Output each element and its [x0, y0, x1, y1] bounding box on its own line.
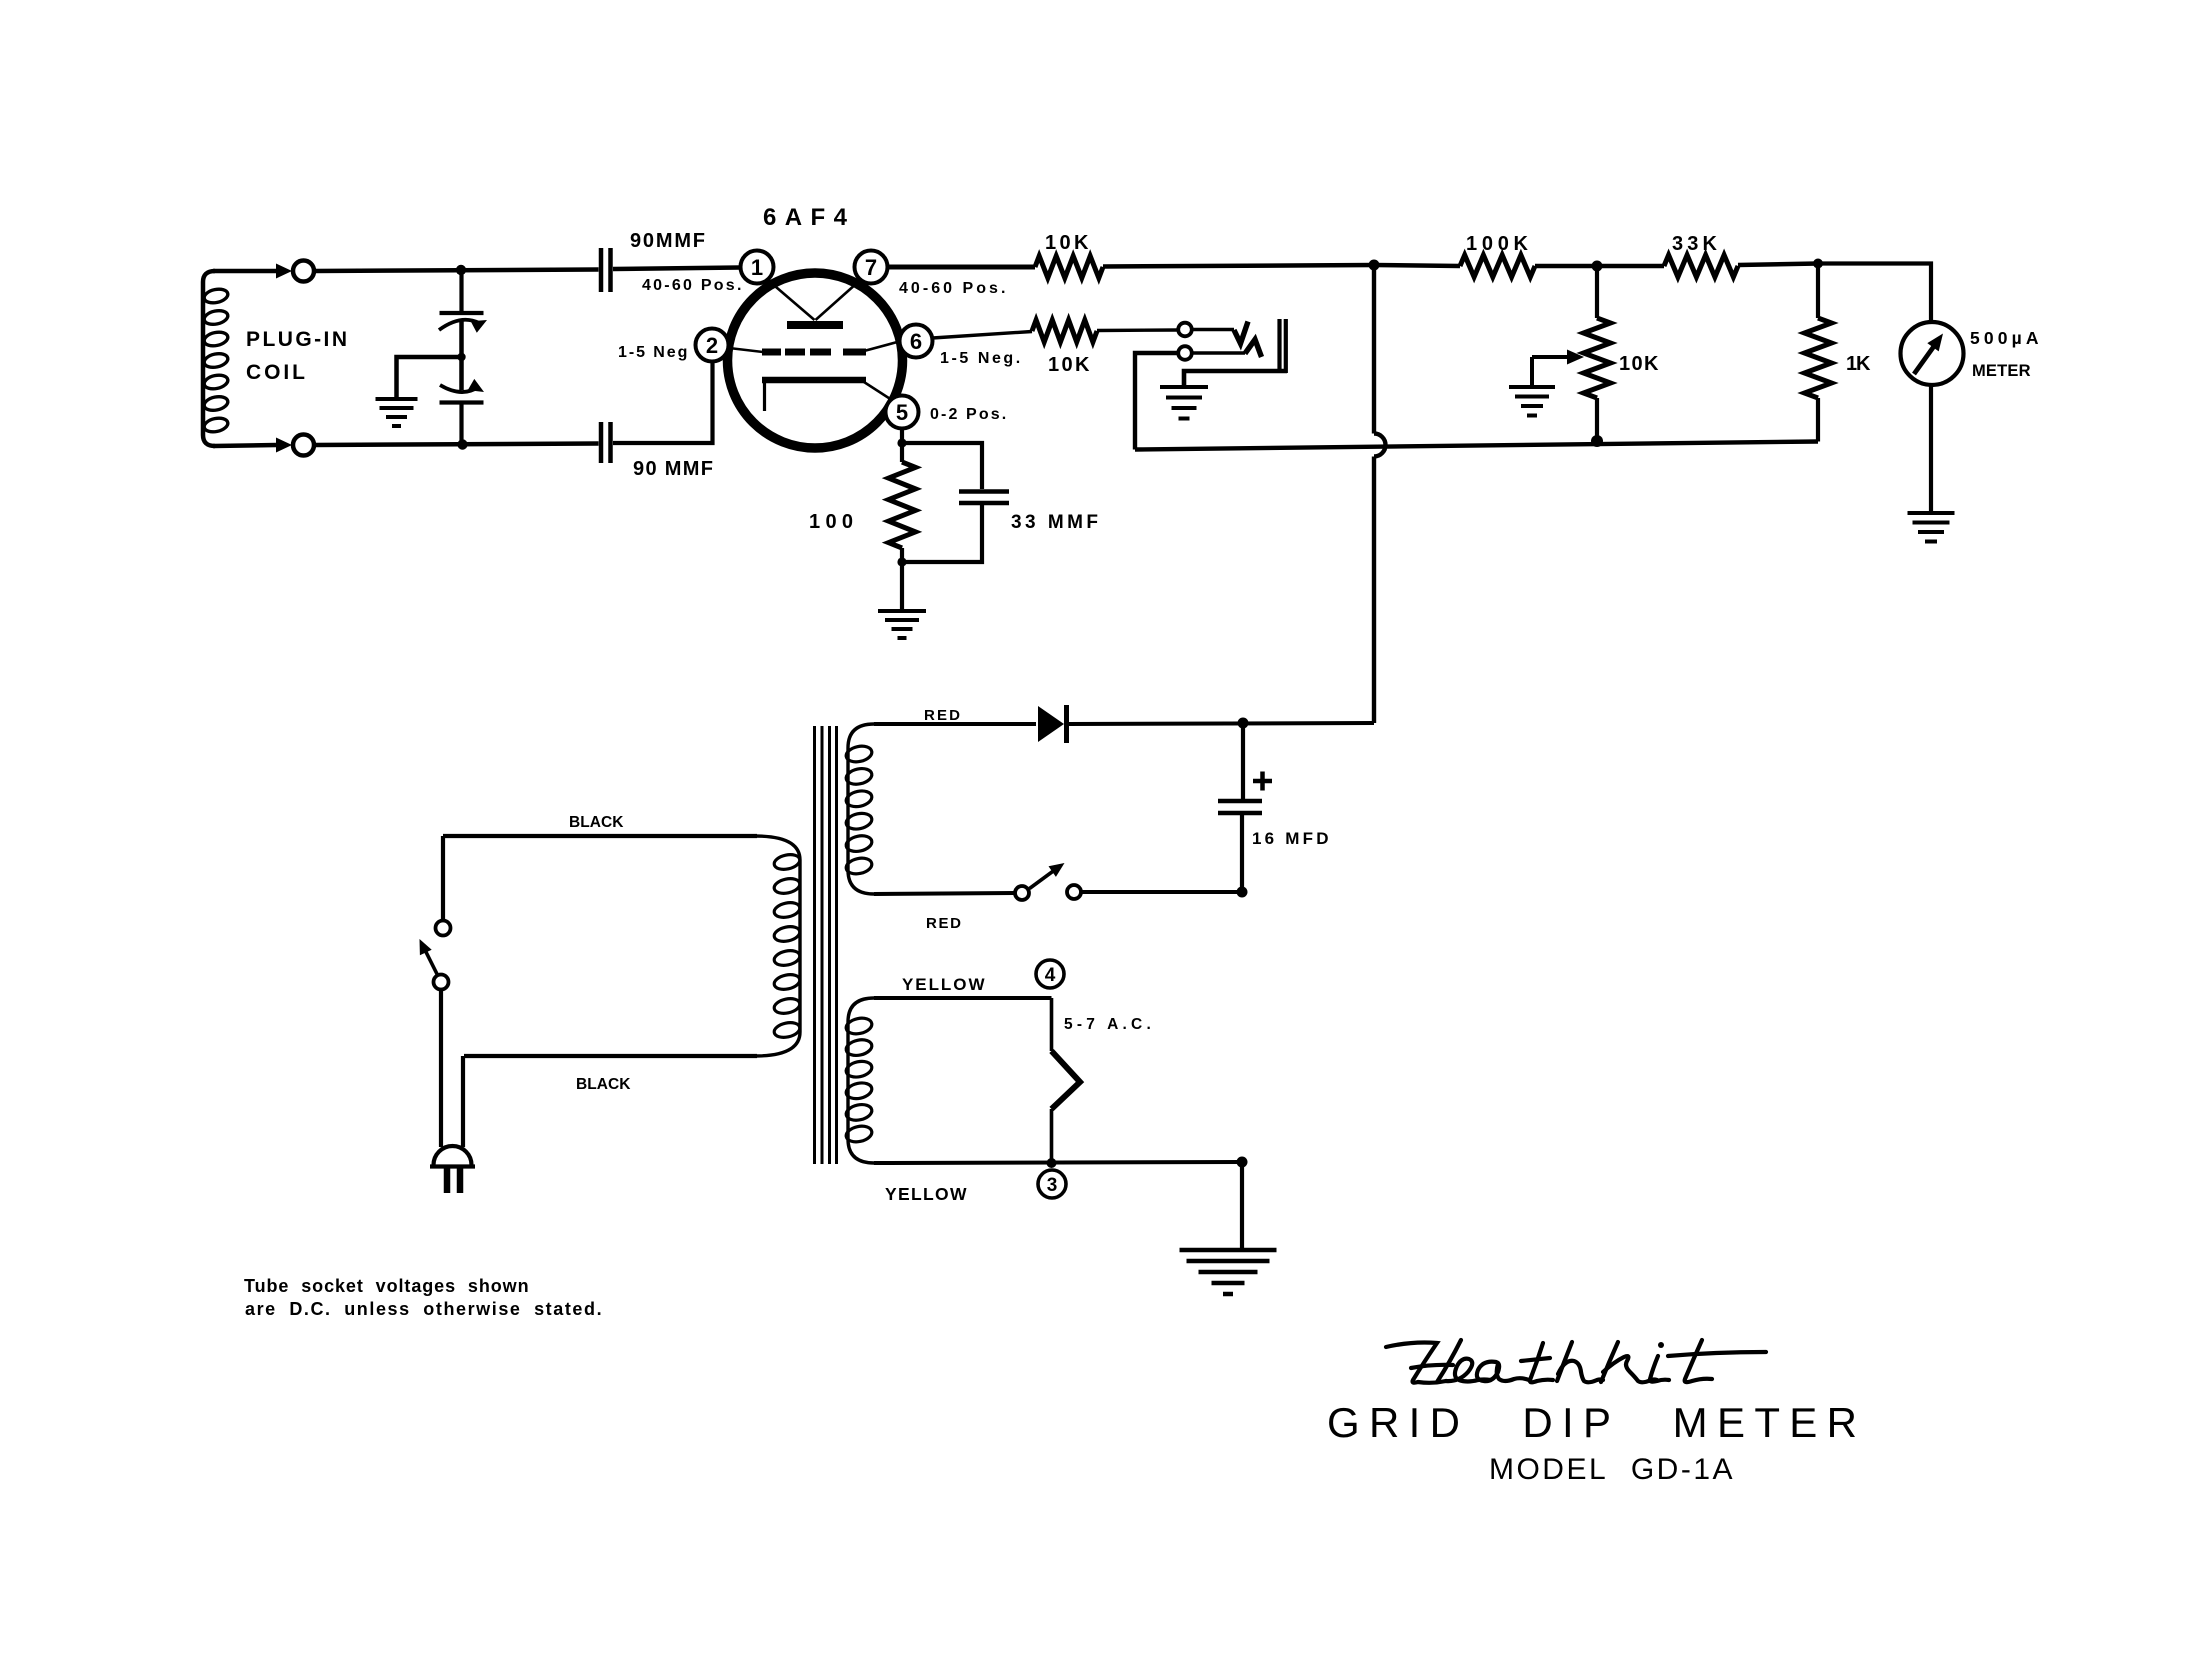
wire black bottom to plug	[461, 1056, 465, 1147]
wire wiper to ground	[1530, 357, 1534, 387]
note line 2	[245, 1299, 602, 1319]
svg-text:6: 6	[910, 329, 922, 354]
label 0-2 Pos.	[930, 406, 1007, 423]
label 10K pot	[1619, 353, 1661, 375]
label RED top	[924, 707, 962, 724]
svg-text:Tube socket voltages shown: Tube socket voltages shown	[244, 1276, 529, 1296]
svg-text:500µA: 500µA	[1970, 328, 2040, 348]
label BLACK top	[569, 814, 626, 831]
switch SW1 contact left	[1015, 886, 1029, 900]
svg-text:MODEL GD-1A: MODEL GD-1A	[1489, 1453, 1740, 1486]
transformer T1 core	[815, 726, 837, 1164]
node bus-pot junction	[1591, 435, 1603, 447]
wire diode to node B	[1069, 723, 1374, 724]
jack tip contact	[1178, 322, 1248, 344]
wire SW1 to C5 node	[1081, 890, 1242, 894]
svg-text:are D.C. unless otherwise stat: are D.C. unless otherwise stated.	[245, 1299, 602, 1319]
wire C1 to pin1	[613, 268, 740, 270]
wire varcap rotor to ground	[397, 357, 462, 399]
tube plate and pin1/7 leads	[762, 275, 866, 325]
svg-text:PLUG-IN: PLUG-IN	[246, 328, 349, 351]
ground (cathode network)	[878, 611, 926, 638]
wire R5 to meter corner	[1738, 264, 1818, 266]
label 1K	[1846, 353, 1873, 375]
svg-text:7: 7	[865, 255, 877, 280]
wire 1K bottom	[1816, 398, 1820, 442]
breaker contact top	[436, 921, 451, 936]
breaker contact bottom	[434, 975, 449, 990]
surge gap 5-7 AC	[1052, 1051, 1081, 1109]
svg-text:1: 1	[751, 255, 763, 280]
label 1-5 Neg. right	[940, 350, 1021, 367]
label 16 MFD	[1252, 829, 1330, 848]
wire pin4 down	[1050, 998, 1054, 1051]
svg-text:YELLOW: YELLOW	[885, 1184, 968, 1204]
svg-text:1-5 Neg.: 1-5 Neg.	[940, 350, 1021, 367]
svg-text:4: 4	[1045, 965, 1056, 986]
node 1K top	[1813, 259, 1823, 269]
pin 6	[900, 325, 933, 358]
note line 1	[244, 1276, 529, 1296]
pin 2	[696, 329, 729, 362]
terminal arrow top	[276, 264, 292, 279]
resistor R5 33K	[1664, 255, 1738, 277]
switch SW1 arm	[1030, 863, 1065, 889]
svg-text:RED: RED	[926, 915, 963, 932]
wire bottom terminal to C2	[314, 444, 599, 446]
ground (variable capacitor)	[376, 399, 418, 426]
ground (jack)	[1160, 387, 1208, 419]
pin 1	[741, 251, 774, 284]
label 100K	[1466, 233, 1530, 255]
wire top terminal to C1	[314, 270, 599, 272]
wire C5 down	[1240, 813, 1244, 892]
svg-text:5: 5	[896, 400, 908, 425]
svg-text:100K: 100K	[1466, 233, 1530, 255]
wire R2 to node A	[1103, 265, 1374, 267]
svg-text:90MMF: 90MMF	[630, 230, 706, 252]
logo Heathkit (script)	[1386, 1340, 1766, 1383]
node B rectifier output	[1238, 718, 1249, 729]
label 500uA	[1970, 328, 2040, 348]
label 10K grid	[1048, 354, 1092, 376]
pin 7	[855, 251, 888, 284]
node main ground junction	[1237, 1157, 1248, 1168]
label 40-60 Pos. left	[642, 277, 742, 294]
wire R4 to R5	[1535, 264, 1664, 269]
node A (B+ to RF section)	[1369, 260, 1380, 271]
svg-text:100: 100	[809, 511, 855, 533]
tube grid (dashed) with leads	[729, 341, 901, 352]
wire node B to C5	[1241, 723, 1245, 799]
resistor R2 10K plate	[1035, 256, 1103, 278]
svg-text:5-7 A.C.: 5-7 A.C.	[1064, 1016, 1152, 1033]
label RED bottom	[926, 915, 963, 932]
label YELLOW top	[902, 975, 986, 994]
wire node A down	[1372, 265, 1376, 434]
svg-text:10K: 10K	[1048, 354, 1092, 376]
breaker arm	[420, 939, 438, 975]
svg-text:COIL: COIL	[246, 361, 309, 384]
svg-text:2: 2	[706, 333, 718, 358]
resistor R4 100K	[1460, 255, 1535, 277]
capacitor C4 33MMF	[959, 492, 1009, 504]
wire cathode cap top	[902, 443, 982, 489]
svg-text:YELLOW: YELLOW	[902, 975, 986, 994]
terminal arrow bottom	[276, 438, 292, 453]
label BLACK bottom	[576, 1076, 633, 1093]
svg-text:10K: 10K	[1619, 353, 1661, 375]
label 10K plate	[1045, 232, 1091, 254]
wire pin7 to R2	[888, 265, 1035, 270]
switch SW1 contact right	[1067, 885, 1081, 899]
wire to main ground	[1240, 1162, 1244, 1250]
wire pot bottom	[1595, 398, 1599, 441]
wire node A to R4	[1374, 265, 1460, 266]
resistor R3 10K grid	[1032, 320, 1097, 342]
capacitor C5 16MFD plus	[1253, 772, 1272, 791]
wire pin6 to R3	[933, 332, 1033, 339]
wire R1 top	[900, 443, 904, 462]
jack ring contact	[1178, 340, 1261, 360]
node cathode top	[897, 438, 906, 447]
wire pin5 down	[900, 428, 904, 443]
label 1-5 Neg left	[618, 344, 688, 361]
capacitor C1 90MMF top	[601, 248, 611, 292]
wire cathode cap bottom	[902, 505, 982, 562]
inductor L1 PLUG-IN COIL	[203, 271, 229, 446]
svg-text:6AF4: 6AF4	[763, 204, 855, 231]
wire hop over bus	[1374, 434, 1386, 457]
wire to meter	[1818, 264, 1931, 322]
resistor R7 1K	[1805, 318, 1832, 398]
wire BLACK top	[443, 834, 757, 838]
svg-text:RED: RED	[924, 707, 962, 724]
wire bus	[1135, 442, 1818, 450]
wire gap down	[1050, 1109, 1054, 1163]
title GRID DIP METER	[1327, 1399, 1870, 1446]
terminal J2 bottom	[293, 435, 314, 456]
wire 1K top	[1816, 264, 1820, 319]
resistor R1 100	[889, 462, 916, 548]
wire breaker to plug	[439, 990, 443, 1148]
svg-text:16 MFD: 16 MFD	[1252, 829, 1330, 848]
capacitor C5 16MFD	[1218, 801, 1262, 813]
wire jack ring to bus	[1135, 353, 1179, 450]
pot wiper arrow	[1532, 350, 1584, 365]
svg-text:33K: 33K	[1672, 233, 1719, 255]
svg-text:BLACK: BLACK	[569, 814, 626, 831]
wire RED bottom	[874, 893, 1015, 894]
svg-text:BLACK: BLACK	[576, 1076, 633, 1093]
svg-text:40-60 Pos.: 40-60 Pos.	[899, 280, 1006, 297]
label 33K	[1672, 233, 1719, 255]
transformer HV secondary winding	[845, 724, 874, 894]
label PLUG-IN	[246, 328, 349, 351]
capacitor C2 90MMF bottom	[601, 422, 611, 463]
tube cathode	[762, 380, 898, 411]
wire BLACK bottom	[464, 1054, 757, 1058]
svg-text:40-60 Pos.: 40-60 Pos.	[642, 277, 742, 294]
label YELLOW bottom	[885, 1184, 968, 1204]
label 100	[809, 511, 855, 533]
svg-text:1-5 Neg: 1-5 Neg	[618, 344, 688, 361]
subtitle MODEL GD-1A	[1489, 1453, 1740, 1486]
svg-text:0-2 Pos.: 0-2 Pos.	[930, 406, 1007, 423]
svg-text:METER: METER	[1972, 362, 2032, 380]
label METER	[1972, 362, 2032, 380]
wire to cathode ground	[900, 562, 904, 611]
label 40-60 Pos. right	[899, 280, 1006, 297]
wire coil top to terminal	[213, 269, 276, 274]
AC plug	[430, 1146, 475, 1193]
wire to breaker	[441, 836, 445, 920]
svg-text:3: 3	[1047, 1175, 1058, 1196]
meter needle	[1914, 334, 1943, 375]
label 90 MMF	[633, 458, 714, 480]
wire pot top	[1595, 266, 1599, 318]
svg-text:90 MMF: 90 MMF	[633, 458, 714, 480]
node junction top (tank)	[456, 265, 466, 275]
svg-text:1K: 1K	[1846, 353, 1873, 375]
wire down to rectifier output	[1372, 457, 1376, 724]
transformer filament winding	[845, 998, 874, 1163]
ground (pot wiper)	[1509, 387, 1555, 416]
pin 3	[1038, 1170, 1066, 1198]
diode D1	[1038, 705, 1067, 743]
label 33 MMF	[1011, 512, 1099, 533]
node switch-C5	[1237, 887, 1248, 898]
wire YELLOW top	[874, 996, 1052, 1000]
potentiometer R6 10K	[1584, 318, 1611, 398]
svg-text:33 MMF: 33 MMF	[1011, 512, 1099, 533]
pin 5	[886, 396, 919, 429]
wire coil bottom to terminal	[213, 445, 276, 446]
svg-text:GRID DIP METER: GRID DIP METER	[1327, 1399, 1870, 1446]
jack plug bars	[1280, 319, 1286, 373]
ground (meter)	[1908, 513, 1955, 542]
wire meter to ground	[1929, 385, 1933, 513]
wire R3 to jack	[1097, 328, 1178, 332]
tube V1 envelope	[728, 273, 903, 448]
node cathode bottom	[897, 557, 906, 566]
label 6AF4	[763, 204, 855, 231]
node pot top	[1592, 261, 1603, 272]
label 90MMF	[630, 230, 706, 252]
variable capacitor C3 split-stator	[439, 270, 487, 444]
jack sleeve to ground	[1184, 371, 1287, 386]
pin 4	[1036, 960, 1064, 988]
svg-text:10K: 10K	[1045, 232, 1091, 254]
ground (main)	[1180, 1250, 1277, 1294]
node filament bottom	[1047, 1158, 1057, 1168]
transformer primary winding	[755, 836, 801, 1056]
wire YELLOW bottom	[874, 1162, 1242, 1163]
meter M1 body	[1901, 322, 1964, 385]
label 5-7 A.C.	[1064, 1016, 1152, 1033]
wire C2 to pin2	[613, 362, 713, 443]
node junction bottom (tank)	[457, 439, 467, 449]
wire RED top	[874, 722, 1036, 726]
terminal J1 top	[293, 261, 314, 282]
wire R1 bottom	[900, 548, 904, 562]
label COIL	[246, 361, 309, 384]
